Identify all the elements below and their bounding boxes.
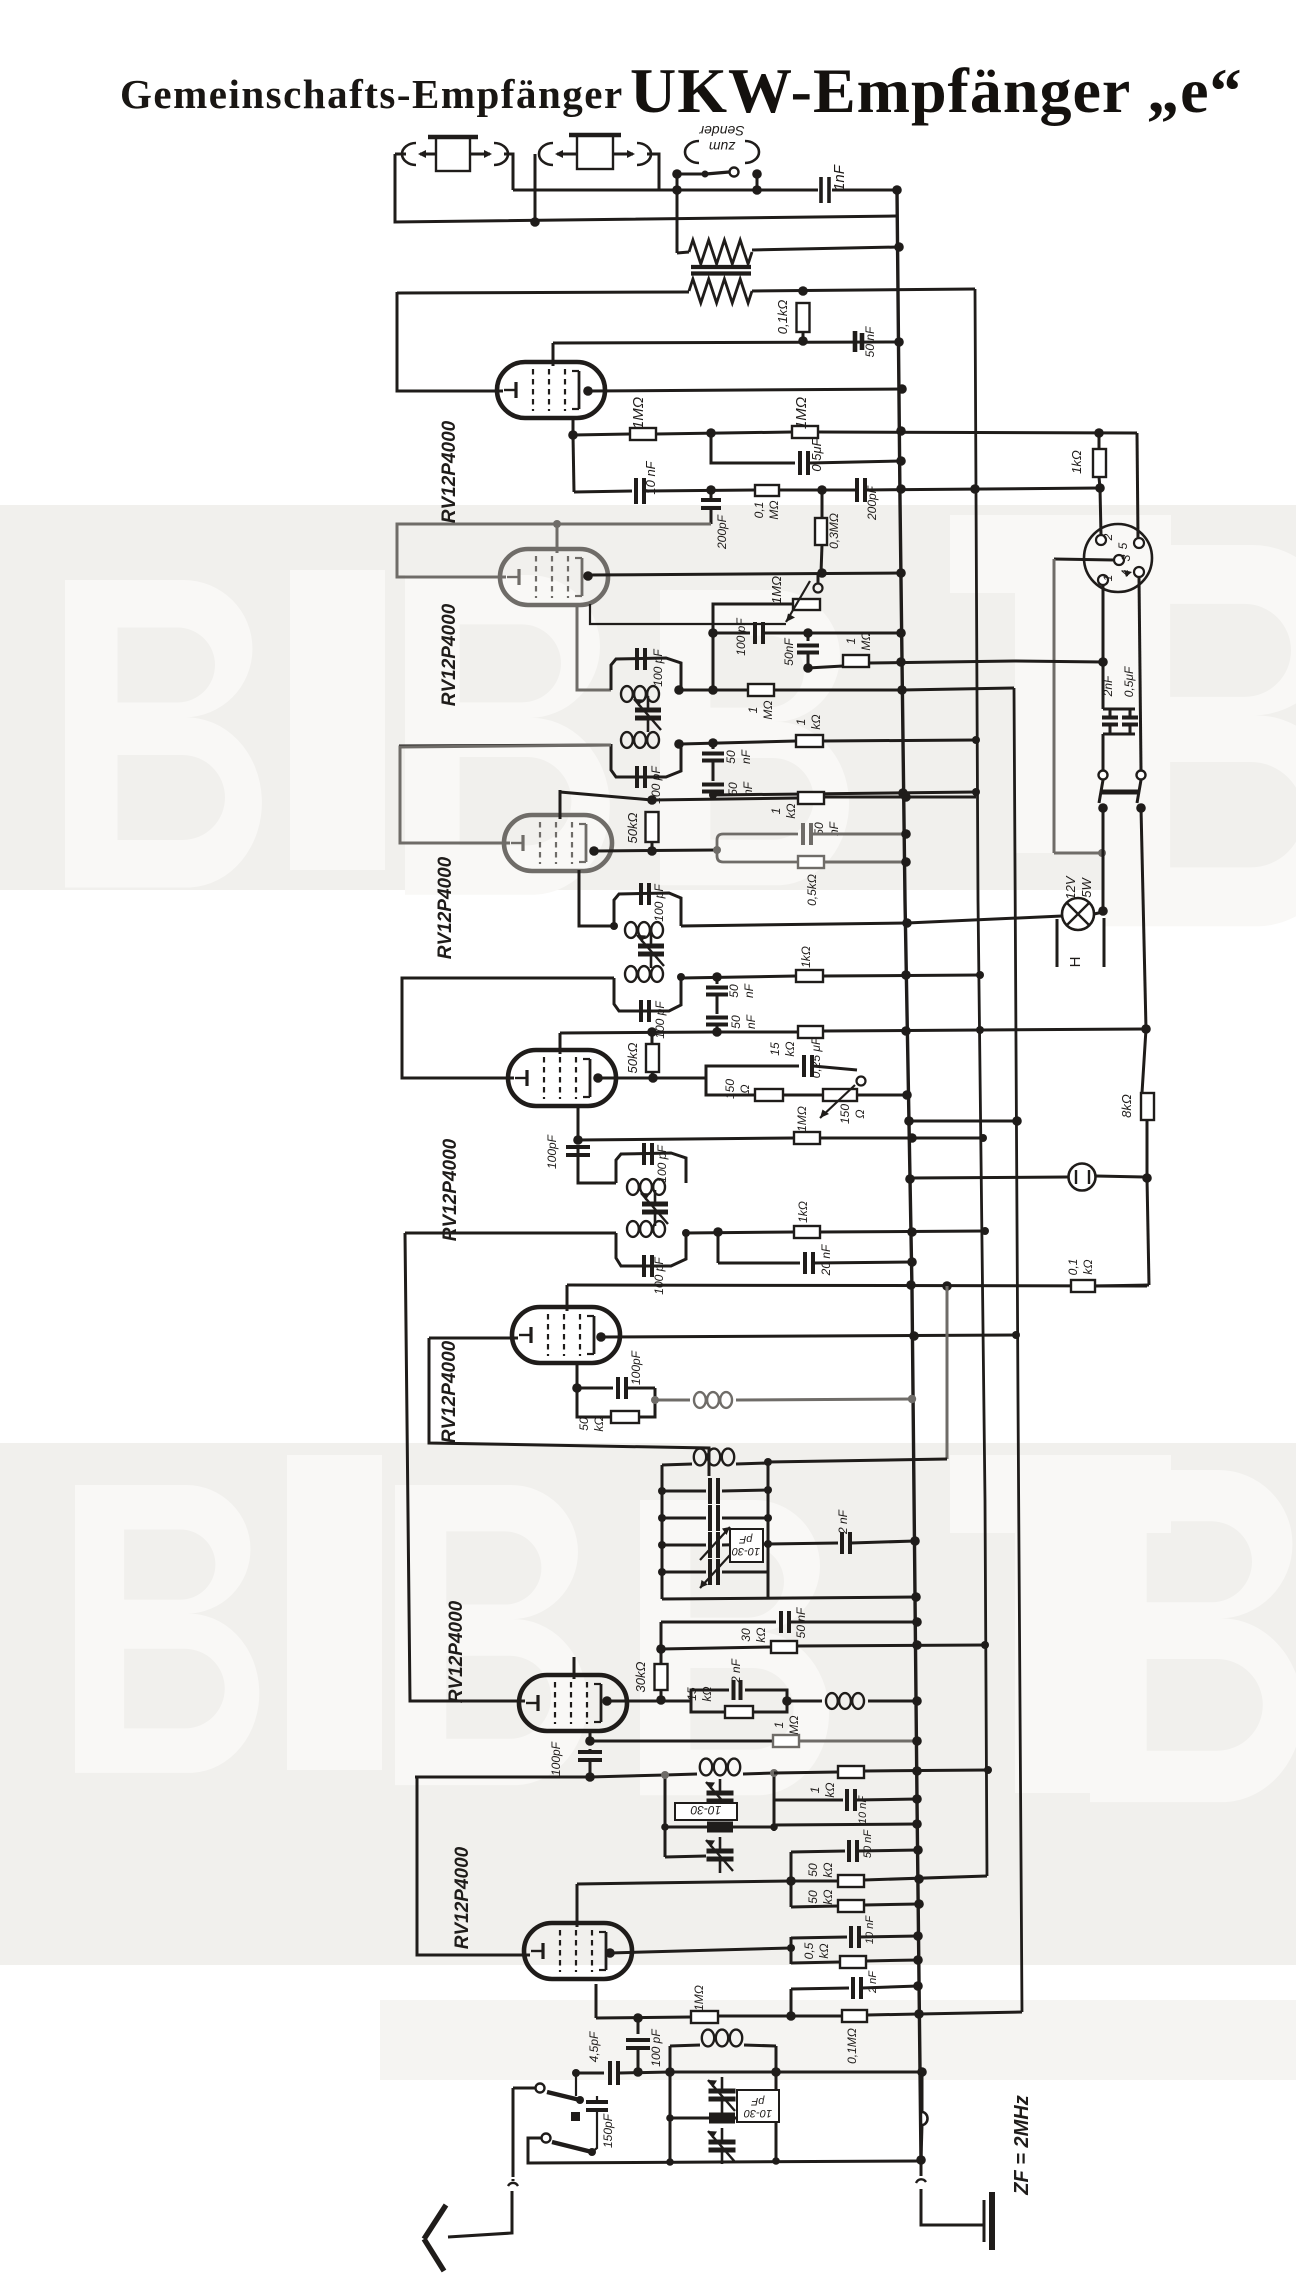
svg-text:0,25 μF: 0,25 μF [809,1037,823,1078]
coil L11 [670,2030,776,2047]
node [712,1027,722,1037]
node [896,568,906,578]
tube socket SO1 [1084,524,1152,592]
wire [1102,734,1105,770]
svg-text:2 nF: 2 nF [867,1970,879,1994]
trimmer CT1 [634,696,661,732]
node [706,485,716,495]
wire [553,342,899,343]
svg-text:0,1MΩ: 0,1MΩ [845,2028,859,2064]
label S1 zum Sender [698,123,744,155]
watermark band [0,505,1296,2080]
tube V7 RV12P4000 [524,1923,632,1979]
svg-text:Ω: Ω [853,1109,867,1118]
svg-text:1MΩ: 1MΩ [793,397,810,429]
jack J2 right contact [613,143,651,165]
label R28 [806,1889,835,1904]
wire [1102,808,1105,911]
label C3 [809,437,824,471]
label C19 [545,1134,559,1169]
svg-text:12V: 12V [1063,875,1078,899]
anode rail V7 [790,1937,793,1964]
svg-text:50: 50 [577,1417,591,1431]
wire [713,792,976,795]
node [573,1135,583,1145]
svg-text:H: H [1067,957,1084,968]
bandfilter BF1 lower loop [611,744,681,777]
svg-text:4,5pF: 4,5pF [587,2031,601,2062]
label P2 [838,1104,867,1124]
node [647,795,657,805]
node [905,1174,915,1184]
label C15 [653,1001,667,1039]
node [568,430,578,440]
wire [768,1459,947,1462]
capacitor C13 50nF [803,823,811,845]
label R31 [845,2028,859,2064]
wire [820,1231,985,1232]
node [894,242,904,252]
wire [681,689,748,692]
wire [808,666,843,668]
node [782,1696,792,1706]
capacitor C14 100pF [641,883,649,905]
svg-text:50nF: 50nF [782,638,796,666]
node [651,1396,659,1404]
capacitor C7 100pF [755,622,763,644]
wire [681,923,907,926]
resistor R5 1M [792,426,818,438]
resistor R9 1M [748,684,774,696]
resistor R12 50k [646,812,659,842]
node [1098,849,1106,857]
label V5 [439,1340,460,1443]
node [901,1024,1151,1036]
node [902,1090,912,1100]
trimmer CT5 [662,1555,768,1588]
switch S3 heater contact R [1137,771,1146,780]
label R3 [775,300,790,335]
wire [1147,1120,1149,1285]
svg-text:100pF: 100pF [549,1741,563,1776]
resistor R30 1M [691,2011,718,2023]
resistor R2 zigzag [689,279,752,303]
node [674,738,718,749]
svg-text:1: 1 [1101,575,1115,582]
resistor R17 150 [755,1089,783,1101]
svg-text:1: 1 [772,1722,786,1729]
wire [907,916,1062,923]
svg-text:kΩ: kΩ [1081,1259,1095,1274]
wire [681,741,796,744]
wire [921,2072,924,2112]
wire [869,661,1014,663]
socket pin 4 [1119,567,1144,577]
wire [711,433,795,463]
node [764,1458,772,1466]
svg-text:UKW-Empfänger „e“: UKW-Empfänger „e“ [630,55,1243,126]
wire [652,798,798,800]
svg-text:15: 15 [685,1687,699,1701]
wire pin3 [1054,559,1114,560]
label R21 [1066,1259,1095,1276]
wire [713,632,750,635]
wire [651,842,654,851]
node [912,1736,922,1746]
wire [573,434,630,435]
trimmer CT2 [637,932,664,968]
svg-text:kΩ: kΩ [821,1862,835,1877]
svg-text:50kΩ: 50kΩ [625,812,640,843]
node [970,484,980,494]
coil L9 choke [787,1693,917,1709]
wire [405,1232,616,1235]
cath rail V7 [790,1989,793,2016]
svg-text:5W: 5W [1079,877,1094,898]
resistor R15 15k [798,1026,823,1038]
switch S2 contact2 [542,2134,551,2143]
node [912,1794,922,1804]
bus break [916,2160,926,2183]
wire [662,1597,916,1599]
wire cathode V4 [577,1106,580,1140]
label V1 [439,420,460,523]
node [1098,803,1146,813]
node [912,1819,922,1829]
node [666,2155,926,2166]
svg-text:0,5: 0,5 [802,1942,816,1959]
heater terminal H right [1103,918,1106,967]
svg-text:50: 50 [806,1863,820,1877]
wire screen V1 top [552,343,555,366]
bandfilter BF3 lower loop [616,1233,686,1266]
wire [576,2072,604,2075]
node [752,185,762,195]
label C29 [549,1741,563,1776]
node anode V7 [605,1948,615,1958]
node [658,1568,666,1576]
node [901,792,911,802]
wire [1100,488,1101,535]
svg-text:0,5μF: 0,5μF [1122,666,1136,697]
wire [1014,661,1103,662]
node [913,1931,923,1941]
node [902,918,912,928]
node [896,628,906,638]
wire [752,247,899,250]
wire [415,1776,590,1779]
node [1098,906,1108,916]
wire screen V2 [556,524,559,553]
wire pin4 down [1139,577,1141,770]
node [633,2013,643,2023]
node [647,846,657,856]
label C8 [782,638,796,666]
svg-text:RV12P4000: RV12P4000 [435,856,456,959]
wire grid V6 [405,1233,525,1701]
svg-text:50: 50 [727,984,741,998]
svg-text:RV12P4000: RV12P4000 [439,420,460,523]
wire [1137,433,1138,538]
node [585,1772,595,1782]
node [913,1955,923,1965]
capacitor C20 100pF [644,1143,652,1165]
wire [810,461,901,463]
label R14 [799,946,813,968]
node [713,846,721,854]
lead break [508,2179,518,2186]
svg-text:Sender: Sender [698,123,744,139]
node [817,568,827,578]
wire anode V2 [588,573,901,575]
wire [864,1770,988,1771]
label C23 100pF [629,1350,643,1385]
trimmer CT4 [662,1527,768,1560]
resistor R26 1k [838,1766,864,1778]
label C32 [864,1915,876,1944]
switch S2 lever2 [552,2142,596,2156]
wire screen V5 [566,1285,569,1311]
label C9 [651,649,665,687]
label C33 [867,1970,879,1994]
node [914,2009,924,2019]
node [897,384,907,394]
wire [560,792,652,800]
svg-text:100 pF: 100 pF [652,1257,666,1295]
wire [1095,1285,1149,1286]
label C21 [652,1257,666,1295]
wire [774,1799,843,1802]
RC4 lower branch [706,1078,755,1095]
lamp LP1 12V 5W [1062,898,1094,930]
wire [670,2071,922,2074]
tube V2 RV12P4000 [500,549,608,605]
node [972,736,980,744]
coil L10 [665,1759,774,1776]
label R8 [844,631,873,650]
wire anode V4 [598,1077,706,1080]
label C22 [819,1244,833,1276]
label R26 [808,1782,837,1797]
svg-text:100 pF: 100 pF [655,1145,669,1183]
svg-text:2nF: 2nF [1101,675,1115,697]
wire [656,432,792,434]
resistor R13 0,5k [798,856,824,868]
node [553,520,561,528]
wire [921,2125,922,2160]
node [911,1592,921,1602]
label C20 [655,1145,669,1183]
socket pin 5 [1116,538,1144,549]
wire cathode V7 [595,1984,598,2018]
svg-text:pF: pF [738,1533,753,1545]
node [907,1227,989,1237]
node [648,1073,658,1083]
wire [774,1824,917,1825]
bandfilter BF4 rails [662,1462,768,1599]
label R16 [625,1042,640,1073]
svg-text:0,1kΩ: 0,1kΩ [775,300,790,335]
coil L1 primary [621,686,659,702]
connector jack circle [1069,1164,1096,1191]
label C26 [836,1509,850,1535]
node [912,1617,922,1627]
svg-text:50: 50 [806,1890,820,1904]
capacitor C27 50nF [781,1611,789,1633]
svg-text:ZF = 2MHz: ZF = 2MHz [1011,2095,1033,2195]
wire [791,1937,847,1938]
tube V1 RV12P4000 [497,362,605,418]
node [610,922,618,930]
wire [790,1621,917,1624]
svg-text:Gemeinschafts-Empfänger: Gemeinschafts-Empfänger [120,71,624,117]
capacitor C26 2nF [768,1532,915,1554]
svg-text:1MΩ: 1MΩ [692,1985,706,2011]
node [908,1395,916,1403]
capacitor C35 4,5pF [610,2061,618,2085]
RC4 upper branch [706,1066,799,1078]
svg-text:1kΩ: 1kΩ [796,1201,810,1223]
resistor R29 0,5k [840,1956,866,1968]
node [907,1133,987,1143]
capacitor C15 100pF [641,1000,649,1022]
node [912,1766,992,1776]
wire [774,1772,838,1773]
node [709,791,717,799]
svg-text:kΩ: kΩ [784,803,798,818]
wire [823,740,976,741]
wire anode V5 [601,1335,1016,1337]
wire V5 grid drop [429,1338,709,1476]
RC6 res branch [691,1701,787,1718]
svg-text:RV12P4000: RV12P4000 [446,1600,467,1703]
svg-text:1MΩ: 1MΩ [630,397,647,429]
label C13 [812,821,841,836]
resistor R21 0,1k [1071,1280,1095,1292]
wire colG [946,1286,949,1459]
resistor R28 50k [838,1900,864,1912]
capacitor C9 100pF [637,648,645,670]
label C27 [794,1607,808,1638]
svg-text:1nF: 1nF [831,164,848,191]
wire [588,389,902,391]
label C28 2nF [729,1658,743,1684]
tube V3 RV12P4000 [504,815,612,871]
wire [1054,852,1102,855]
label C6 [715,514,729,550]
resistor R11 1k [798,792,824,804]
svg-text:100 pF: 100 pF [652,884,666,922]
svg-text:0,1: 0,1 [752,502,766,519]
heater terminal H left [1056,919,1059,967]
wire [865,488,1100,490]
capacitor C5 200pF [857,478,865,502]
svg-text:10-30: 10-30 [731,1545,760,1557]
label R19 [796,1201,810,1223]
tube V4 RV12P4000 [508,1050,616,1106]
screen rail [790,1852,793,1907]
svg-text:50kΩ: 50kΩ [625,1042,640,1073]
wire anode V3 [594,850,717,851]
resistor R3 0,1k [797,303,810,332]
capacitor C19 100pF [566,1147,590,1155]
svg-text:1: 1 [769,808,783,815]
switch S3 heater contact L [1099,771,1108,780]
wire [823,1029,1146,1031]
node anode V6 [602,1696,612,1706]
node [896,484,906,494]
label C38 [1122,666,1136,697]
svg-text:2 nF: 2 nF [729,1658,743,1684]
label V3 [435,856,456,959]
wire [791,1906,838,1907]
svg-text:50 nF: 50 nF [863,326,877,357]
node [708,628,718,638]
resistor R16 50k [646,1032,659,1078]
transformer T1 core [691,267,751,274]
svg-text:nF: nF [742,983,756,998]
wire cathode V1 [572,418,575,435]
node [656,1695,666,1705]
wire [791,1962,840,1963]
svg-text:150: 150 [723,1079,737,1099]
svg-text:200pF: 200pF [715,514,729,550]
node anode V4 [593,1073,603,1083]
label R12 [625,812,640,843]
RC block lower branch [717,850,798,862]
node [894,337,904,347]
svg-text:30kΩ: 30kΩ [633,1661,648,1692]
wire [1094,912,1103,914]
label box2 10-30pF [675,1803,737,1820]
wire [399,745,611,746]
wire [1142,1029,1146,1093]
jack J1 left contact [402,143,436,165]
wire [910,1176,1147,1178]
coil L2 secondary [621,732,659,748]
svg-text:100 pF: 100 pF [734,618,748,656]
node [912,1640,989,1650]
wire [577,604,611,690]
wire [560,1032,717,1033]
bus ground rail [897,190,921,2160]
resistor R19 1k [794,1226,820,1238]
svg-text:MΩ: MΩ [859,631,873,650]
node [1098,657,1108,667]
wire screen V7 [576,1884,579,1927]
node [674,685,718,695]
label R23 [633,1661,648,1692]
svg-text:1kΩ: 1kΩ [799,946,813,968]
label R6 [752,500,781,519]
svg-text:1kΩ: 1kΩ [1069,450,1084,474]
coil L4 secondary [625,966,663,982]
node [1142,1173,1152,1183]
wire [596,2017,691,2018]
label C35 [587,2031,601,2062]
coil L5 primary [627,1179,665,1195]
node [896,657,906,667]
svg-text:20 nF: 20 nF [819,1244,833,1276]
wire screen V3 [559,790,562,819]
node [892,185,902,195]
capacitor C16 50nF [706,977,728,1010]
tube V6 RV12P4000 [519,1675,627,1731]
antenna lead [512,2088,515,2177]
wire [919,2012,1022,2014]
bus hop [922,2112,928,2125]
label LP1 [1063,875,1094,899]
